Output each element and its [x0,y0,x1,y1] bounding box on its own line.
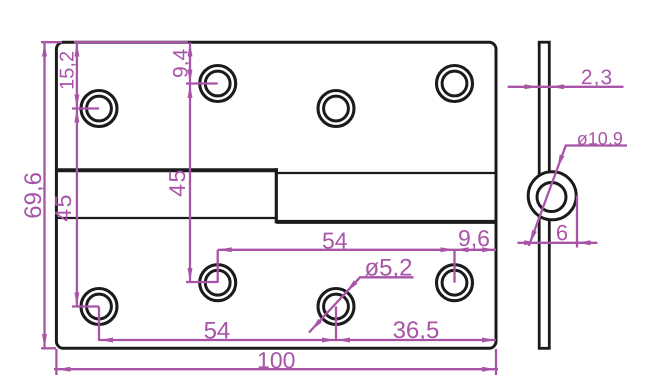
svg-text:9,6: 9,6 [458,225,490,251]
svg-text:100: 100 [257,347,295,373]
svg-text:15,2: 15,2 [57,51,79,90]
svg-text:45: 45 [50,193,76,222]
svg-text:2,3: 2,3 [581,66,613,89]
svg-text:6: 6 [556,220,568,245]
svg-text:45: 45 [164,168,190,197]
svg-text:ø5,2: ø5,2 [364,255,412,282]
svg-text:69,6: 69,6 [20,172,47,219]
svg-text:54: 54 [322,227,348,253]
svg-text:36,5: 36,5 [393,317,440,344]
svg-text:54: 54 [204,317,231,344]
svg-text:9,4: 9,4 [170,49,193,79]
svg-text:ø10,9: ø10,9 [577,129,623,149]
